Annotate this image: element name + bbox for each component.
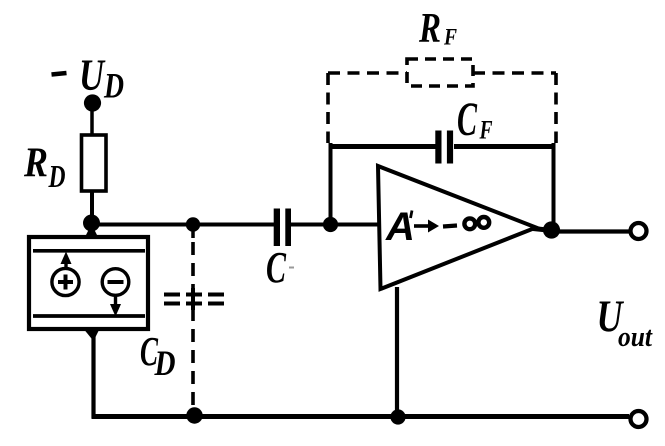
svg-text:out: out [618, 321, 653, 353]
svg-text:U: U [79, 51, 106, 100]
svg-text:C: C [457, 93, 478, 146]
svg-text:D: D [154, 343, 176, 383]
svg-text:C: C [266, 243, 286, 292]
svg-text:D: D [48, 158, 66, 194]
svg-text:R: R [23, 141, 48, 187]
svg-text:F: F [443, 25, 457, 50]
svg-text:F: F [479, 116, 493, 145]
svg-text:D: D [103, 66, 124, 106]
svg-text:R: R [418, 6, 441, 52]
